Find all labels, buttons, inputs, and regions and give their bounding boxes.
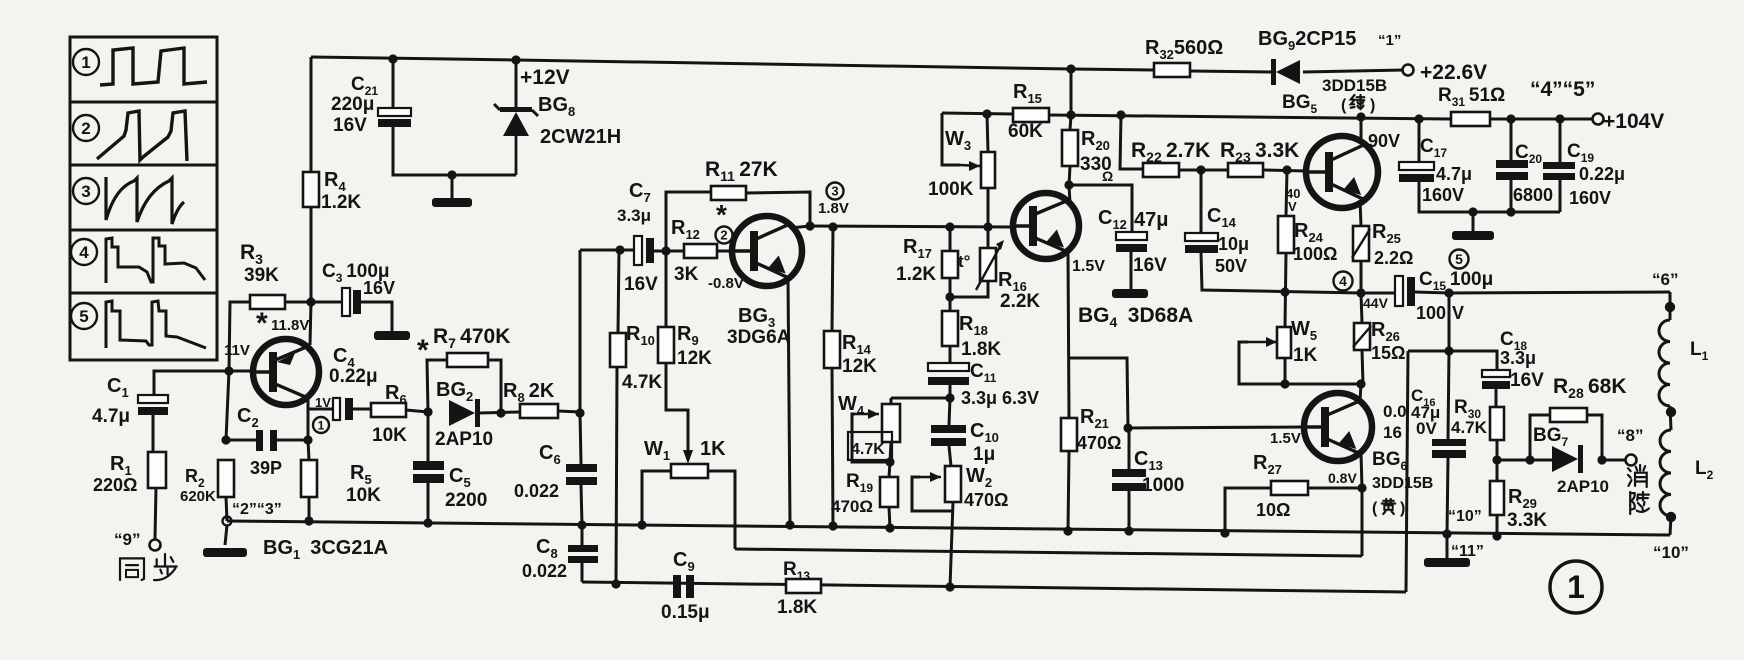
node C7 R9 R11 junction xyxy=(661,246,670,255)
wire C11 bottom xyxy=(949,385,952,398)
wire R5 top xyxy=(308,440,309,460)
big circled 1 xyxy=(1550,561,1602,613)
svg-text:10Ω: 10Ω xyxy=(1256,500,1290,520)
resistor R11 xyxy=(711,186,746,200)
svg-text:1μ: 1μ xyxy=(973,444,995,465)
capacitor C3 xyxy=(342,288,361,316)
label 16 frag xyxy=(1383,423,1402,442)
label quote 10 xyxy=(1653,543,1689,562)
node R24 C14 wire cross xyxy=(1280,287,1289,296)
small circled 2 xyxy=(716,227,733,244)
node BG3 collector xyxy=(805,221,814,230)
svg-text:470Ω: 470Ω xyxy=(831,497,873,516)
label R4 xyxy=(324,169,346,194)
node W1 left rail xyxy=(637,520,646,529)
wire riser x1408 xyxy=(1406,351,1408,592)
resistor R23 xyxy=(1228,163,1263,177)
wire R16 bottom loop xyxy=(950,281,988,297)
wire R6 to node xyxy=(406,410,428,412)
label R3 xyxy=(240,241,263,267)
svg-text:1.8K: 1.8K xyxy=(777,597,817,618)
svg-text:50V: 50V xyxy=(1215,256,1247,276)
wire BG6 emitter down xyxy=(1361,453,1362,488)
label 3K xyxy=(674,264,699,285)
node R10 top xyxy=(615,245,624,254)
label 220μ xyxy=(331,94,374,115)
label R8 2K xyxy=(503,380,555,405)
label 4.7μ C17 xyxy=(1436,164,1472,184)
legend row 2 circled number xyxy=(73,115,99,141)
wire W5 bottom lead xyxy=(1284,358,1287,384)
wire R16 top lead xyxy=(987,227,990,248)
wire W1 right lead xyxy=(708,471,735,549)
svg-text:0.0: 0.0 xyxy=(1383,402,1407,421)
node W3 top xyxy=(982,109,991,118)
wire C16 bottom lead xyxy=(1447,458,1448,534)
resistor R7 xyxy=(447,353,488,367)
node C13 rail xyxy=(1124,526,1133,535)
small circled 1 xyxy=(313,417,329,433)
label R11 27K xyxy=(705,158,778,184)
node BG3 emitter rail xyxy=(785,520,794,529)
wire R27 left lead xyxy=(1225,488,1271,533)
wire C2 left lead xyxy=(226,439,256,442)
wire to riser xyxy=(1408,350,1449,353)
wire C12 branch xyxy=(1069,185,1132,232)
svg-text:3: 3 xyxy=(831,184,838,199)
wire BG9 to +22.6V terminal xyxy=(1303,70,1403,72)
waveform legend box frame xyxy=(70,37,217,360)
node BG7 cathode xyxy=(1597,455,1606,464)
svg-text:R28 68K: R28 68K xyxy=(1553,375,1626,401)
label 10Ω xyxy=(1256,500,1290,520)
wire C2 right lead xyxy=(277,439,308,442)
ground below C12 xyxy=(1112,289,1148,298)
label 16V C21 xyxy=(333,115,367,136)
svg-text:1.5V: 1.5V xyxy=(1270,430,1301,447)
label R10 xyxy=(626,323,655,348)
svg-text:0V: 0V xyxy=(1416,419,1437,438)
label 1μ xyxy=(973,444,995,465)
resistor R24 xyxy=(1278,216,1294,253)
wire gnd stub C17 xyxy=(1472,212,1475,231)
label 39K xyxy=(244,265,279,286)
label star R12 xyxy=(716,199,727,230)
node R27 rail xyxy=(1220,528,1229,537)
svg-text:3DD15B: 3DD15B xyxy=(1372,475,1433,492)
wire W5 loop xyxy=(1239,342,1285,384)
svg-text:10K: 10K xyxy=(372,425,407,446)
wire R28 right lead xyxy=(1587,415,1602,460)
capacitor C15 xyxy=(1395,276,1415,306)
wire C19 top lead xyxy=(1559,119,1562,162)
label R7 470K xyxy=(433,325,510,351)
svg-text:1.8V: 1.8V xyxy=(818,200,849,217)
legend row 1 circled number xyxy=(73,49,99,75)
node BG4 collector xyxy=(1064,180,1073,189)
node C17 gnd junction xyxy=(1468,207,1477,216)
label 16V C18 xyxy=(1510,370,1544,391)
label 100K xyxy=(928,179,974,200)
svg-text:4: 4 xyxy=(1339,273,1347,289)
label quote 6 xyxy=(1652,270,1678,289)
label R2 xyxy=(185,466,205,490)
svg-text:“4”“5”: “4”“5” xyxy=(1530,78,1595,101)
legend row 3 waveform xyxy=(106,177,184,224)
wire BG6 collector up xyxy=(1360,384,1361,401)
svg-text:R8 2K: R8 2K xyxy=(503,380,555,405)
svg-text:“6”: “6” xyxy=(1652,270,1678,289)
wire BG6 base wire xyxy=(1128,427,1304,428)
label R25 xyxy=(1372,221,1401,246)
svg-text:90V: 90V xyxy=(1368,131,1400,151)
wire left column base to C2 xyxy=(226,371,229,440)
label 47μ C12 xyxy=(1134,209,1168,231)
node R5 bottom rail xyxy=(304,516,313,525)
boxed label 4.7K xyxy=(848,432,892,460)
svg-text:4.7K: 4.7K xyxy=(1451,418,1488,437)
small circled 3 xyxy=(827,183,844,200)
label R19 xyxy=(846,471,873,495)
wire R10 top lead xyxy=(618,250,619,333)
svg-text:60K: 60K xyxy=(1008,121,1043,142)
wire R27 right lead xyxy=(1308,487,1362,490)
svg-text:6800: 6800 xyxy=(1513,185,1553,205)
wire R29 bottom lead xyxy=(1496,515,1499,536)
node BG6 emitter xyxy=(1357,483,1366,492)
label C14 xyxy=(1207,205,1237,230)
wire W3 top lead xyxy=(987,114,988,152)
wire R22 up lead xyxy=(1120,115,1143,169)
wire +12V top rail xyxy=(311,57,1154,70)
node C20 rail2 xyxy=(1506,114,1515,123)
wire R24 vertical xyxy=(1286,170,1287,216)
W3 wiper arrow xyxy=(960,161,980,171)
resistor R5 xyxy=(301,460,317,497)
wire base rail BG3 to BG4 xyxy=(810,226,1013,227)
node BG2 anode xyxy=(423,407,432,416)
wire BG8 stem top xyxy=(515,60,518,110)
wire BG5 collector up xyxy=(1360,117,1363,141)
wire C6 bottom lead xyxy=(581,485,582,525)
svg-text:1K: 1K xyxy=(1293,345,1318,366)
wire C9 R13 line xyxy=(582,582,1406,592)
potentiometer W5 xyxy=(1277,327,1291,358)
wire C15 node down xyxy=(1448,293,1451,351)
svg-text:R23 3.3K: R23 3.3K xyxy=(1220,139,1299,165)
node rail left end xyxy=(223,517,232,526)
label R12 xyxy=(671,217,700,242)
label W4 xyxy=(838,393,865,418)
wire R7 left lead xyxy=(427,360,447,412)
node R29 rail xyxy=(1492,531,1501,540)
resistor R10 xyxy=(610,333,626,367)
label 2200 xyxy=(445,490,487,511)
node 44V junction xyxy=(1356,288,1365,297)
wire R3 right lead xyxy=(285,301,311,304)
wire W4 wire xyxy=(891,397,950,400)
inductor L1 xyxy=(1659,320,1670,406)
label R21 xyxy=(1080,406,1109,431)
wire R2 bottom xyxy=(226,497,227,521)
wire R26 bottom lead xyxy=(1362,350,1363,384)
transistor BG6 xyxy=(1304,393,1372,461)
svg-text:V: V xyxy=(1288,199,1297,214)
label 44V xyxy=(1363,295,1389,311)
node C20 bottom xyxy=(1506,207,1515,216)
resistor R21 xyxy=(1061,418,1077,451)
label 3.3K R29 xyxy=(1507,510,1547,531)
svg-text:“10”: “10” xyxy=(1653,543,1689,562)
wire C4 to R6 xyxy=(353,408,371,411)
resistor R25 xyxy=(1352,226,1370,261)
node R8 C6 xyxy=(575,408,584,417)
svg-text:3K: 3K xyxy=(674,264,699,285)
wire C20 top lead xyxy=(1510,119,1513,160)
svg-text:1000: 1000 xyxy=(1142,475,1184,496)
svg-text:10μ: 10μ xyxy=(1218,234,1249,254)
node C6 rail xyxy=(577,520,586,529)
transistor BG4 xyxy=(1013,193,1079,259)
node R14 top xyxy=(828,222,837,231)
label C15 100μ xyxy=(1419,269,1493,293)
transistor BG1 xyxy=(253,339,319,405)
wire to C18 R30 xyxy=(1449,351,1497,370)
svg-text:BG4 3D68A: BG4 3D68A xyxy=(1078,304,1193,330)
label 12K R14 xyxy=(842,356,877,377)
svg-text:3: 3 xyxy=(81,182,90,201)
resistor R29 xyxy=(1490,481,1504,515)
ground terminal 11 xyxy=(1424,558,1470,567)
wire R7 right lead xyxy=(488,360,501,413)
node R19 rail xyxy=(885,523,894,532)
label 10μ xyxy=(1218,234,1249,254)
wire C7 right lead xyxy=(654,250,666,253)
label 1K W1 xyxy=(700,438,726,460)
label 2.2K R16 xyxy=(1000,291,1040,312)
node C11 W4 junction xyxy=(945,393,954,402)
wire BG6 emitter to feedback rail xyxy=(1361,488,1364,556)
node R17 top xyxy=(945,222,954,231)
label R17 xyxy=(903,236,932,261)
label BG8 xyxy=(538,94,575,119)
wire BG4 collector up xyxy=(1069,185,1070,203)
label C21 xyxy=(351,74,378,98)
resistor R31 xyxy=(1451,112,1490,126)
node C15 output xyxy=(1444,288,1453,297)
label C16 xyxy=(1411,386,1436,409)
svg-text:): ) xyxy=(1370,97,1375,114)
label BG7 xyxy=(1533,425,1569,449)
node R7 right lead xyxy=(496,408,505,417)
wire coil bottom corner xyxy=(1670,516,1671,535)
wire C21 stem xyxy=(392,59,395,108)
wire R14 bottom lead xyxy=(832,368,833,526)
wire C8 bottom to C9 line xyxy=(581,563,584,582)
label quote 9 xyxy=(114,530,140,549)
label C17 xyxy=(1420,136,1447,160)
svg-text:3.3μ 6.3V: 3.3μ 6.3V xyxy=(961,388,1039,408)
wire R20 top lead xyxy=(1070,115,1071,130)
capacitor C20 xyxy=(1496,160,1528,180)
svg-text:1.2K: 1.2K xyxy=(321,192,361,213)
wire R24 to W5 xyxy=(1285,253,1286,327)
label 16V C3 xyxy=(363,278,395,298)
resistor R14 xyxy=(824,331,840,368)
wire to terminal 8 xyxy=(1602,459,1625,462)
label BG3 xyxy=(738,305,775,330)
label blanking chinese xiaoyin xyxy=(1628,465,1649,514)
svg-text:16V: 16V xyxy=(1510,370,1544,391)
label 1000 xyxy=(1142,475,1184,496)
wire C1 top wire xyxy=(154,371,229,395)
node BG1 base xyxy=(224,366,233,375)
label W5 xyxy=(1291,318,1317,343)
svg-text:R31 51Ω: R31 51Ω xyxy=(1438,85,1505,109)
label BG2 xyxy=(436,379,473,404)
wire R28 left lead xyxy=(1530,415,1550,460)
terminal +104V xyxy=(1593,114,1604,125)
svg-text:2.2Ω: 2.2Ω xyxy=(1374,248,1413,268)
resistor R27 xyxy=(1271,481,1308,495)
svg-text:+12V: +12V xyxy=(520,66,570,89)
label -0.8V xyxy=(708,275,744,292)
svg-text:3DD15B: 3DD15B xyxy=(1322,76,1387,95)
label 0.022 C8 xyxy=(522,561,567,581)
svg-text:11.8V: 11.8V xyxy=(271,317,309,334)
svg-text:R7 470K: R7 470K xyxy=(433,325,510,351)
svg-text:1: 1 xyxy=(81,53,90,72)
label 1.8K R18 xyxy=(961,339,1001,360)
capacitor C17 xyxy=(1399,162,1434,182)
transistor BG3 xyxy=(732,216,802,286)
wire C15 left lead xyxy=(1361,292,1395,295)
wire W5 to BG6 collector xyxy=(1285,383,1361,386)
wire BG1 emitter up xyxy=(310,302,311,345)
label C2 xyxy=(237,405,259,430)
terminal 9 xyxy=(150,540,161,551)
ground below C3 xyxy=(374,331,410,340)
svg-text:470Ω: 470Ω xyxy=(1077,433,1121,453)
label R22 2.7K xyxy=(1131,139,1210,165)
svg-text:220Ω: 220Ω xyxy=(93,475,137,495)
label R30 xyxy=(1454,397,1481,421)
resistor R30 xyxy=(1490,407,1504,440)
wire output to coil xyxy=(1449,292,1670,293)
label 0.8V xyxy=(1328,470,1357,486)
node R17 R18 junction xyxy=(945,292,954,301)
svg-text:+104V: +104V xyxy=(1603,110,1664,133)
svg-text:16V: 16V xyxy=(363,278,395,298)
wire C6 top lead xyxy=(580,413,581,464)
wire BG4 emitter down xyxy=(1068,252,1069,418)
wire coil top corner xyxy=(1669,292,1672,320)
wire feedback rail W1 to BG6 xyxy=(735,549,1362,556)
node coil top xyxy=(1665,302,1675,312)
node C5 rail xyxy=(423,518,432,527)
svg-text:1K: 1K xyxy=(700,438,726,460)
label R14 xyxy=(842,332,872,357)
label +12V xyxy=(520,66,570,89)
svg-text:0.8V: 0.8V xyxy=(1328,470,1357,486)
legend row 5 circled number xyxy=(71,303,97,329)
wire R14 top lead xyxy=(832,227,833,331)
node R20 top rail2 xyxy=(1066,110,1075,119)
legend row 5 waveform xyxy=(106,301,206,348)
svg-text:0.22μ: 0.22μ xyxy=(1579,164,1625,184)
capacitor C18 xyxy=(1482,370,1510,389)
wire C6 column top xyxy=(579,250,582,413)
svg-text:*: * xyxy=(417,334,429,367)
wire R10 bottom lead xyxy=(616,367,617,584)
label 0.022 C6 xyxy=(514,481,559,501)
potentiometer W1 xyxy=(671,464,708,478)
wire C1 to R1 xyxy=(152,415,155,452)
wire rail2 middle xyxy=(1049,115,1451,119)
ground below C17 block xyxy=(1452,231,1494,240)
diode BG7 xyxy=(1552,445,1583,473)
wire R19 bottom lead xyxy=(889,507,890,528)
label 100 V xyxy=(1416,303,1464,323)
svg-text:(: ( xyxy=(1372,500,1378,517)
wire ground stub BG8 xyxy=(451,175,454,198)
wire R22 right lead xyxy=(1179,169,1228,172)
label 2CW21H xyxy=(540,126,621,148)
label L2 xyxy=(1695,458,1714,482)
label 160V C17 xyxy=(1422,185,1464,205)
svg-text:“9”: “9” xyxy=(114,530,140,549)
node junction 1449 351 xyxy=(1444,346,1453,355)
node R30 R29 junction xyxy=(1492,455,1501,464)
potentiometer W3 xyxy=(981,152,995,188)
wire C10 top lead xyxy=(949,398,950,425)
label C4 xyxy=(333,345,355,370)
label 4.7μ C1 xyxy=(92,406,130,427)
wire R20 bottom lead xyxy=(1069,166,1070,185)
wire R30 bottom lead xyxy=(1496,440,1499,460)
svg-text:“11”: “11” xyxy=(1451,543,1484,560)
node top rail C21 xyxy=(388,54,397,63)
svg-text:160V: 160V xyxy=(1569,188,1611,208)
resistor R4 xyxy=(303,172,319,207)
svg-text:15Ω: 15Ω xyxy=(1371,343,1405,363)
label 2AP10 BG7 xyxy=(1557,477,1609,496)
label R9 xyxy=(677,323,699,348)
svg-text:10K: 10K xyxy=(346,485,381,506)
node C16 rail xyxy=(1442,529,1451,538)
label R29 xyxy=(1508,486,1537,511)
svg-text:*: * xyxy=(716,199,727,230)
svg-text:11V: 11V xyxy=(224,342,250,359)
label 1.8V xyxy=(818,200,849,217)
wire R18 top lead xyxy=(949,278,952,311)
node rail2 BG5 xyxy=(1356,112,1365,121)
svg-text:(: ( xyxy=(1341,97,1347,114)
svg-text:5: 5 xyxy=(1455,251,1463,267)
resistor R17 xyxy=(942,251,958,278)
label C3 100μ xyxy=(322,261,390,285)
wire C7 left wire xyxy=(580,249,634,252)
label 0.22μ C19 xyxy=(1579,164,1625,184)
svg-text:BG1 3CG21A: BG1 3CG21A xyxy=(263,537,388,562)
capacitor C13 xyxy=(1112,469,1146,491)
wire BG6 base dogleg xyxy=(1069,358,1128,428)
label ohm sub xyxy=(1102,168,1113,184)
svg-text:5: 5 xyxy=(79,307,88,326)
node C2 left xyxy=(221,435,230,444)
svg-text:1.8K: 1.8K xyxy=(961,339,1001,360)
wire R9 to W1 wiper xyxy=(666,363,688,456)
